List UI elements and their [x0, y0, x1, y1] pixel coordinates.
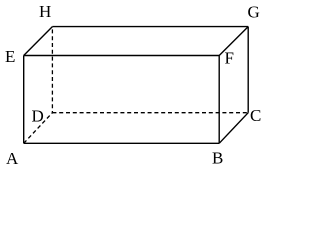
- edge BC right bottom diagonal: [219, 113, 248, 144]
- svg-text:A: A: [6, 149, 19, 168]
- edge EA front left: [23, 56, 25, 144]
- edge FB front right: [218, 56, 220, 144]
- edge FG right top diagonal: [219, 27, 248, 56]
- svg-text:B: B: [212, 149, 223, 168]
- edge AD hidden diagonal dashed: [24, 113, 53, 144]
- edge HG back top: [52, 26, 248, 28]
- svg-text:D: D: [32, 107, 44, 126]
- svg-text:F: F: [225, 49, 234, 68]
- edge EF front top: [24, 55, 220, 57]
- edge AB front bottom: [24, 142, 220, 144]
- edge DC hidden back bottom dashed: [52, 112, 248, 114]
- svg-text:H: H: [39, 2, 51, 21]
- edge GC back right: [247, 27, 249, 113]
- svg-text:E: E: [5, 47, 15, 66]
- svg-text:G: G: [248, 3, 260, 22]
- edge EH left top diagonal: [24, 27, 53, 56]
- svg-text:C: C: [250, 106, 261, 125]
- edge DH hidden back left dashed: [51, 29, 53, 112]
